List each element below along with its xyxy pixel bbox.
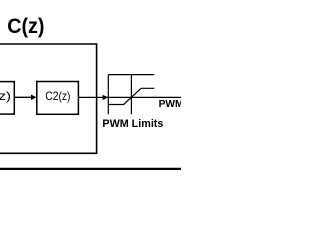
svg-text:C2(z): C2(z) (45, 89, 70, 103)
svg-text:z): z) (0, 89, 11, 103)
svg-text:PWM: PWM (159, 99, 181, 110)
svg-text:PWM Limits: PWM Limits (102, 118, 163, 130)
svg-text:C(z): C(z) (7, 14, 44, 38)
